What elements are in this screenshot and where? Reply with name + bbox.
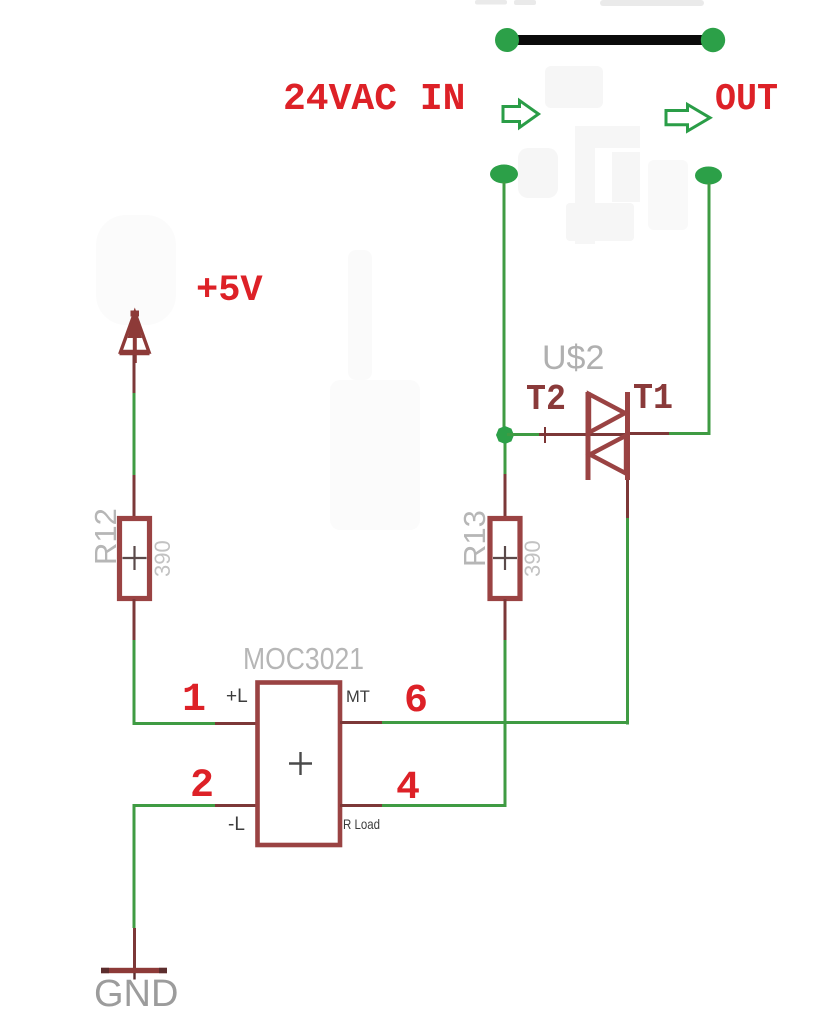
pin stub: triac gate (dark red) [539, 433, 629, 436]
svg-text:390: 390 [520, 540, 545, 577]
svg-text:R Load: R Load [343, 816, 380, 832]
wire: gate horizontal (green) [507, 433, 539, 436]
svg-text:T1: T1 [633, 378, 673, 419]
svg-text:2: 2 [190, 764, 214, 809]
svg-text:U$2: U$2 [542, 339, 604, 377]
svg-text:MT: MT [346, 688, 370, 706]
wire: OUT vertical (green) [708, 183, 711, 435]
wire: +5V vertical (green) [133, 393, 136, 475]
optocoupler MOC3021 body [258, 683, 341, 846]
pad ellipse left (24VAC IN) [490, 165, 518, 184]
svg-text:+5V: +5V [196, 270, 263, 312]
svg-text:R13: R13 [457, 510, 492, 567]
svg-text:T2: T2 [526, 379, 566, 420]
svg-text:-L: -L [228, 814, 245, 835]
svg-text:+L: +L [226, 686, 248, 707]
wire: below junction (green) [504, 442, 507, 474]
svg-text:6: 6 [404, 679, 428, 724]
pad ellipse right (OUT) [695, 167, 722, 185]
pin stub: R13 bottom (dark red) [504, 599, 507, 640]
pin stub: MOC pin2 (dark red) [215, 804, 258, 807]
triac lower triangle [590, 436, 626, 474]
svg-text:GND: GND [94, 973, 178, 1015]
wire: triac to pin6 row (green) [626, 518, 629, 725]
svg-text:24VAC IN: 24VAC IN [283, 78, 465, 121]
pin stub: triac T1 bottom (dark red) [626, 480, 629, 518]
terminal bar (black) [507, 35, 713, 45]
R12 origin cross [123, 546, 147, 570]
pin stub: triac T1 (dark red) [629, 432, 669, 435]
arrow icon left [503, 101, 539, 128]
svg-text:OUT: OUT [715, 78, 778, 121]
R13 origin cross [493, 546, 517, 570]
+5V supply symbol [120, 311, 150, 363]
pin stub: R13 top (dark red) [504, 474, 507, 517]
svg-text:R12: R12 [88, 508, 123, 565]
resistor R12 [120, 519, 150, 599]
wire: OUT horizontal (green) [669, 432, 711, 435]
MOC origin cross [289, 752, 312, 775]
pin stub: R12 top (dark red) [133, 475, 136, 517]
pin stub: R12 bottom (dark red) [133, 599, 136, 640]
wire: pin6 to triac (green) [382, 721, 629, 724]
triac U$2 right bar (T1) [625, 392, 630, 480]
pin stub: MOC pin1 (dark red) [215, 722, 258, 725]
terminal dot right [701, 28, 725, 52]
resistor R13 [490, 519, 520, 599]
gate pin tick [544, 427, 546, 443]
triac U$2 left bar (T2) [586, 392, 591, 480]
svg-text:4: 4 [396, 766, 420, 811]
faint watermark ghost [96, 66, 688, 530]
wire: R12 to pin1 corner (green) [134, 640, 215, 724]
triac upper triangle [589, 394, 625, 433]
ground symbol bar [101, 968, 167, 973]
wire: 24VAC IN vertical (green) [503, 182, 506, 428]
svg-text:MOC3021: MOC3021 [243, 641, 364, 676]
node junction dot [496, 426, 514, 444]
wire: pin4 to R13 net (green) [382, 804, 507, 807]
pin stub: MOC pin4 (dark red) [340, 804, 382, 807]
pin stub: GND top (dark red) [133, 928, 136, 968]
wire: pin2 to GND corner (green) [134, 806, 215, 929]
faint cropped text remnants at top [475, 0, 704, 6]
svg-text:1: 1 [182, 678, 206, 723]
wire: R13 down to pin4 row (green) [504, 640, 507, 806]
svg-text:390: 390 [150, 540, 175, 577]
arrow icon right [666, 105, 710, 132]
pin stub: +5V to wire (dark red) [133, 355, 136, 393]
pin stub: MOC pin6 (dark red) [340, 721, 382, 724]
terminal dot left [495, 28, 519, 52]
